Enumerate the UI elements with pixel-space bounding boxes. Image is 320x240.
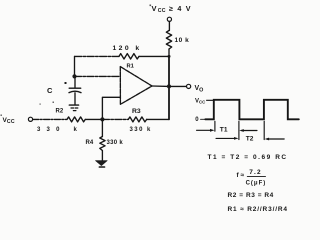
tick T2 right: [263, 121, 265, 139]
svg-text:R2 = R3 = R4: R2 = R3 = R4: [228, 192, 274, 199]
label 120 k: [113, 45, 142, 52]
label VCC left: [3, 117, 15, 125]
svg-text:R1: R1: [127, 64, 135, 70]
label C: [47, 86, 53, 95]
wire VCC terminal to 10k: [168, 22, 170, 31]
wire non-inverting input: [102, 97, 120, 119]
output rail wire: [168, 56, 170, 119]
label 0 waveform level: [195, 117, 199, 123]
svg-text:R3: R3: [132, 108, 141, 115]
wire VCC left to R2: [33, 118, 67, 120]
wire junction to R3: [102, 118, 128, 120]
node non-inverting divider junction: [100, 117, 104, 121]
stray scan speckles: [1, 5, 152, 116]
wire left vertical down to node: [74, 56, 76, 76]
svg-text:C(μF): C(μF): [246, 181, 267, 187]
equation R2 = R3 = R4: [228, 192, 274, 199]
node output junction: [167, 84, 171, 88]
svg-text:T1: T1: [220, 127, 228, 134]
wire VCC level dash: [207, 99, 214, 101]
waveform square wave: [205, 100, 298, 120]
resistor 10 k: [166, 31, 171, 50]
wire rail to R1: [139, 55, 169, 57]
svg-text:C: C: [47, 86, 53, 95]
svg-text:f ≈: f ≈: [237, 172, 245, 179]
wire R3 to output rail: [147, 118, 169, 120]
resistor R4 330 k: [100, 137, 105, 151]
node junction rail top: [168, 55, 171, 58]
label 330 k (R4): [107, 140, 124, 146]
label 330 k (R2): [37, 127, 83, 133]
fraction bar: [247, 176, 265, 178]
svg-text:R4: R4: [86, 140, 94, 146]
svg-text:7.2: 7.2: [249, 169, 262, 176]
label VO: [195, 85, 204, 93]
equation f = 7.2 / C(uF): [237, 169, 267, 187]
wire capacitor to ground: [74, 93, 76, 105]
node inverting input junction: [72, 74, 76, 78]
resistor R1 120 k: [119, 54, 139, 59]
wire 0 level dash: [201, 118, 206, 120]
label R1: [127, 64, 135, 70]
svg-text:330 k: 330 k: [37, 127, 83, 133]
label VCC waveform level: [195, 99, 206, 105]
wire R4 to ground: [101, 151, 103, 161]
dimension arrow into T2 left: [216, 137, 236, 139]
dimension arrow into T2 right: [267, 138, 284, 140]
wire R2 to junction: [85, 118, 102, 120]
svg-text:R2: R2: [56, 109, 64, 115]
wire node to capacitor: [74, 76, 76, 87]
stray scan dot below C: [53, 102, 55, 104]
svg-text:330 k: 330 k: [130, 127, 152, 133]
wire output to terminal: [169, 85, 186, 87]
wire R1 to left vertical: [75, 55, 120, 57]
equation T1 = T2 = 0.69 RC: [208, 154, 288, 161]
label T1: [220, 127, 228, 134]
wire junction to R4: [101, 119, 103, 136]
capacitor C: [69, 87, 81, 89]
wire node to inverting input: [75, 75, 121, 77]
tick T1 right / T2 left: [238, 121, 240, 139]
wire 10k to output rail: [168, 49, 170, 56]
dimension arrow into T1 left: [197, 129, 213, 131]
equation R1 = R2//R3//R4: [228, 206, 288, 213]
terminal VCC top: [167, 17, 171, 21]
label R2: [56, 109, 64, 115]
stray scan dot near C: [65, 82, 67, 84]
svg-text:120 k: 120 k: [113, 45, 142, 52]
tick T1 left: [214, 121, 216, 131]
label 10 k: [175, 37, 190, 44]
label 330 k (R3): [130, 127, 152, 133]
resistor R3 330 k: [128, 117, 146, 122]
ground (R4): [96, 161, 108, 166]
label R3: [132, 108, 141, 115]
svg-text:VCC ≥ 4 V: VCC ≥ 4 V: [152, 4, 192, 14]
supply label VCC >= 4 V: [152, 4, 192, 14]
terminal VO: [187, 84, 191, 88]
svg-text:R1 ≈ R2//R3//R4: R1 ≈ R2//R3//R4: [228, 206, 288, 213]
label R4: [86, 140, 94, 146]
terminal VCC left: [28, 117, 32, 121]
label T2: [246, 136, 254, 143]
svg-text:T1 = T2 = 0.69 RC: T1 = T2 = 0.69 RC: [208, 154, 288, 161]
dimension arrow into T1 right: [242, 130, 258, 132]
wire op-amp output: [152, 85, 169, 87]
svg-text:330 k: 330 k: [107, 140, 124, 146]
op-amp U1: [120, 67, 152, 105]
svg-text:10 k: 10 k: [175, 37, 190, 44]
ground (capacitor): [69, 104, 78, 106]
resistor R2 330 k: [67, 117, 85, 122]
svg-text:T2: T2: [246, 136, 254, 143]
svg-text:VCC: VCC: [195, 99, 206, 105]
